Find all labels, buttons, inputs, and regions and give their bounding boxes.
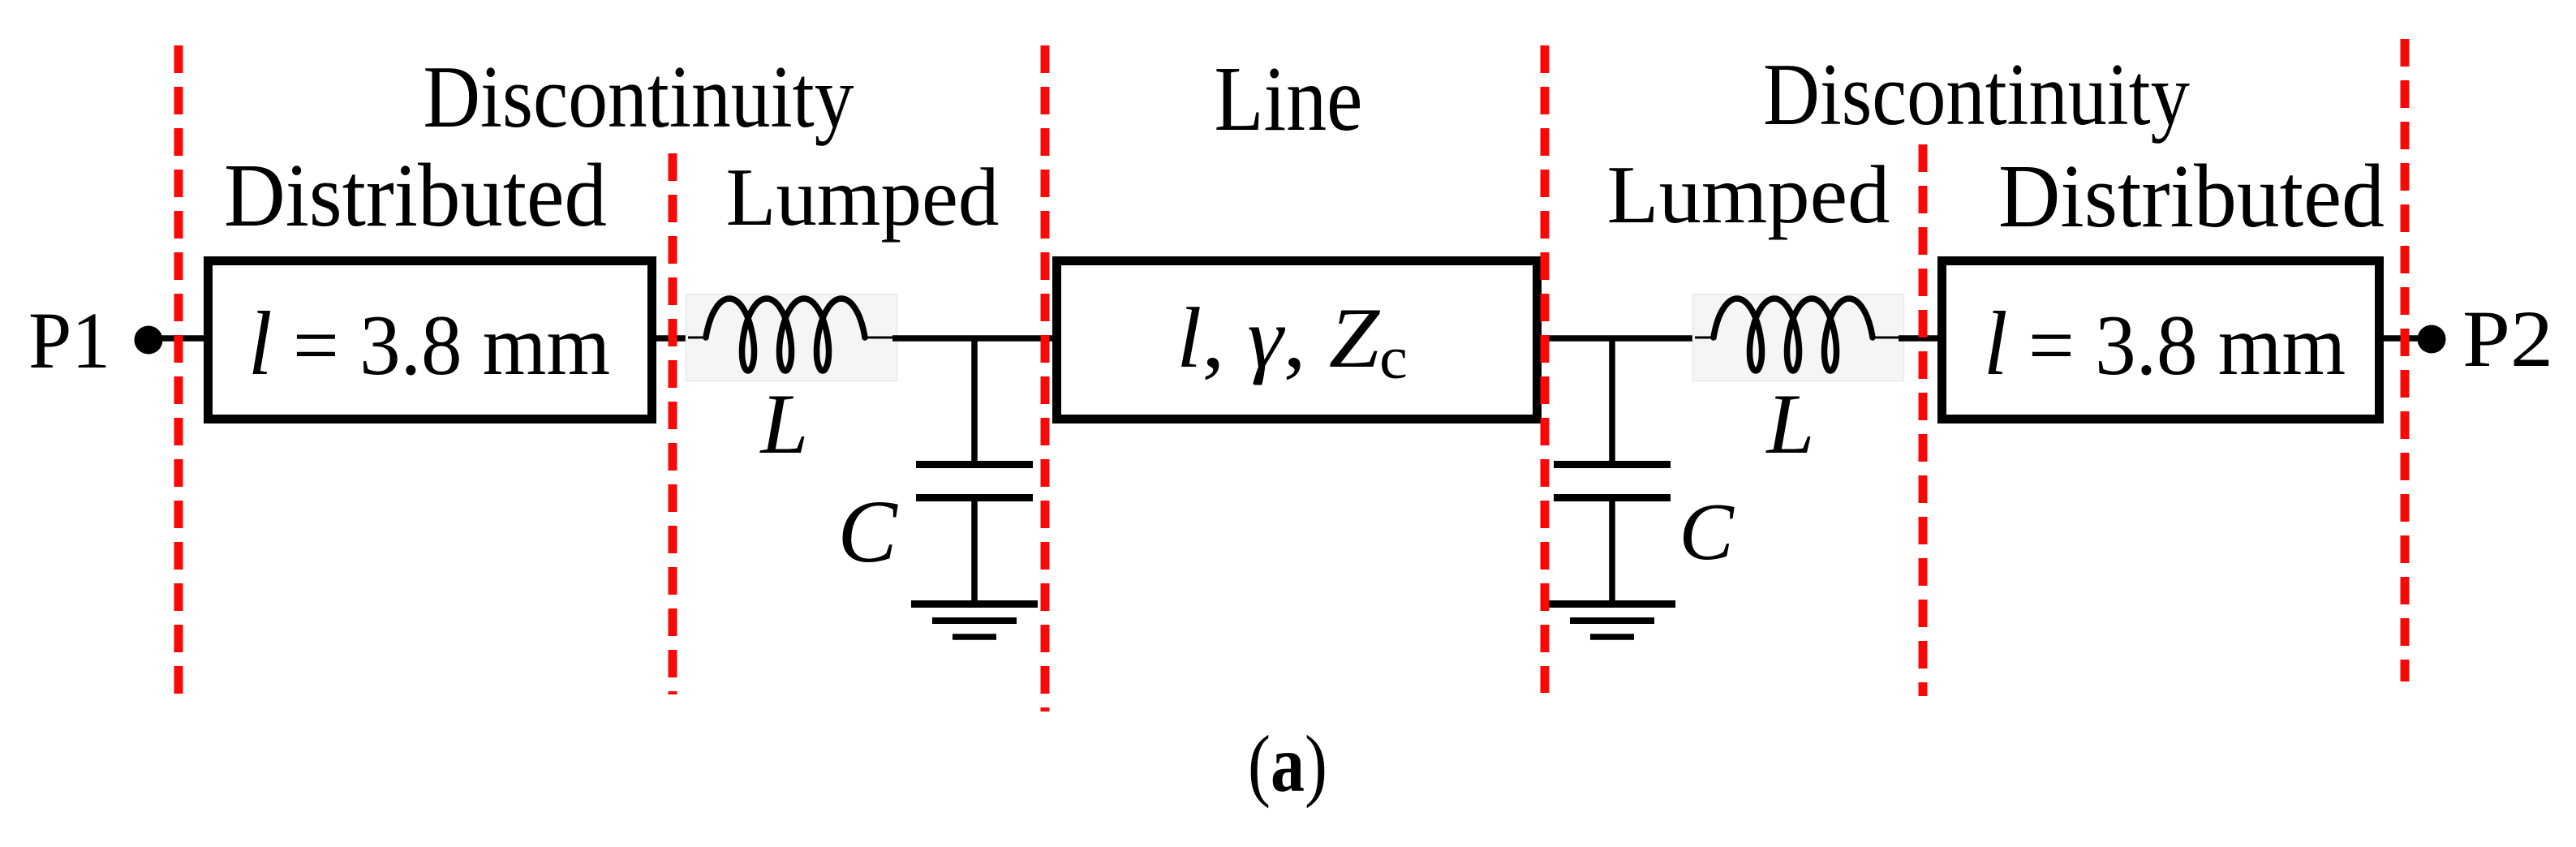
capacitor C1 xyxy=(916,465,1033,498)
port P1 label xyxy=(28,296,110,385)
capacitor C2 xyxy=(1554,465,1671,498)
svg-text:P1: P1 xyxy=(28,296,110,385)
svg-text:(a): (a) xyxy=(1248,719,1327,808)
inductor L1 (with light selection box) xyxy=(686,295,897,381)
capacitor label C (right) xyxy=(1679,486,1735,577)
wire box3 to P2 xyxy=(2384,335,2432,342)
region label Distributed (left) xyxy=(224,146,607,245)
transmission line box 1 (distributed, l = 3.8 mm) xyxy=(209,261,652,419)
region boundary red dashed line 2 xyxy=(669,153,677,694)
inductor label L (left) xyxy=(759,376,809,471)
ground (left) xyxy=(911,604,1038,638)
svg-text:l, γ, Zc: l, γ, Zc xyxy=(1176,290,1408,392)
svg-text:Lumped: Lumped xyxy=(1606,149,1890,240)
wire capacitor C1 to ground xyxy=(971,500,978,602)
region label Distributed (right) xyxy=(1998,147,2385,247)
svg-text:Distributed: Distributed xyxy=(224,146,607,245)
port P1 node xyxy=(135,326,163,355)
svg-text:Line: Line xyxy=(1215,49,1363,151)
transmission line box 2 (line, l gamma Zc) xyxy=(1057,261,1537,419)
port P2 label xyxy=(2462,295,2553,385)
node junction wire down to capacitor C1 xyxy=(971,338,978,462)
svg-text:C: C xyxy=(1679,486,1735,577)
capacitor label C (left) xyxy=(837,482,898,581)
wire capacitor C2 to ground xyxy=(1609,500,1615,602)
svg-text:P2: P2 xyxy=(2462,295,2553,385)
node junction wire down to capacitor C2 xyxy=(1609,338,1615,462)
transmission line box 3 (distributed, l = 3.8 mm) xyxy=(1942,261,2380,419)
caption (a) xyxy=(1248,719,1327,808)
wire inductor L1 to box2 (junction at node) xyxy=(892,335,1052,342)
wire box1 to inductor L1 xyxy=(656,335,694,342)
svg-text:L: L xyxy=(1765,376,1815,471)
svg-text:l = 3.8 mm: l = 3.8 mm xyxy=(248,293,610,394)
inductor label L (right) xyxy=(1765,376,1815,471)
region label Discontinuity (right) xyxy=(1763,46,2190,144)
region boundary red dashed line 1 xyxy=(174,45,183,703)
svg-text:Distributed: Distributed xyxy=(1998,147,2385,247)
region boundary red dashed line 6 xyxy=(2401,39,2410,681)
inductor L2 (with light selection box) xyxy=(1693,295,1904,381)
region label Line xyxy=(1215,49,1363,151)
svg-text:Discontinuity: Discontinuity xyxy=(423,49,854,146)
wire inductor L2 to box3 xyxy=(1899,335,1939,342)
region boundary red dashed line 3 xyxy=(1041,45,1050,712)
ground (right) xyxy=(1549,604,1675,638)
region boundary red dashed line 5 xyxy=(1919,144,1928,696)
svg-text:Discontinuity: Discontinuity xyxy=(1763,46,2190,144)
svg-text:C: C xyxy=(837,482,898,581)
region label Lumped (left) xyxy=(726,152,1000,243)
region boundary red dashed line 4 xyxy=(1541,45,1550,693)
port P2 node xyxy=(2418,325,2446,354)
wire P1 to box1 xyxy=(148,335,205,342)
svg-text:Lumped: Lumped xyxy=(726,152,1000,243)
region label Lumped (right) xyxy=(1606,149,1890,240)
svg-text:l = 3.8 mm: l = 3.8 mm xyxy=(1984,293,2346,394)
wire box2 to node junction 2 xyxy=(1542,335,1692,342)
region label Discontinuity (left) xyxy=(423,49,854,146)
svg-text:L: L xyxy=(759,376,809,471)
